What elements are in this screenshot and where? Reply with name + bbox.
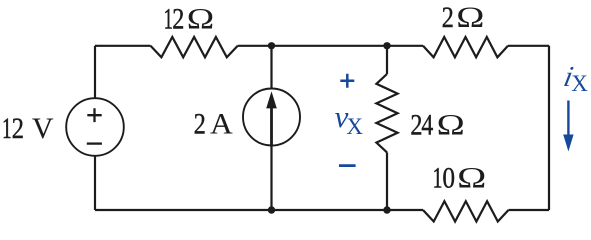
node junction dot: bottom of 24-ohm branch (383, 206, 390, 213)
node junction dot: bottom of current source branch (268, 206, 275, 213)
svg-text:Ω: Ω (437, 109, 465, 141)
svg-text:V: V (32, 112, 54, 145)
resistor 10 ohm (bottom right, zigzag) (423, 201, 509, 221)
value label 12 V (2, 111, 54, 145)
svg-text:Ω: Ω (187, 2, 214, 35)
svg-text:Ω: Ω (456, 2, 484, 34)
voltage source 12V (circle symbol) (66, 98, 124, 156)
wire: right side (548, 46, 550, 210)
svg-text:2: 2 (194, 107, 206, 140)
value label 12 ohm (164, 2, 215, 36)
current source 2A (circle symbol) (243, 89, 300, 146)
label iX current (blue italic i, subscript X) (561, 61, 588, 96)
wire: 24-ohm branch above resistor (386, 46, 388, 74)
plus sign inside 12V source (87, 108, 101, 122)
wire: bottom right corner to 10-ohm (509, 209, 550, 211)
node junction dot: top of 24-ohm branch (383, 42, 390, 49)
label vX voltage (blue italic v, subscript X) (335, 99, 364, 139)
value label 2 A (194, 107, 233, 140)
svg-text:1: 1 (2, 113, 11, 145)
value label 10 ohm (433, 161, 487, 195)
wire: 24-ohm branch below resistor (386, 152, 388, 210)
arrow inside 2A source (pointing up) (266, 91, 277, 144)
plus sign of vX polarity (blue) (340, 74, 354, 88)
svg-text:X: X (346, 114, 363, 139)
svg-text:2: 2 (12, 111, 24, 145)
svg-text:A: A (210, 107, 233, 140)
wire: bottom from left corner through nodes to 10-ohm (95, 209, 423, 211)
minus sign inside 12V source (87, 142, 102, 144)
wire: top-left corner to 12-ohm resistor (95, 45, 151, 47)
resistor 12 ohm (top left, zigzag) (151, 37, 238, 57)
svg-text:1: 1 (433, 161, 443, 194)
resistor 2 ohm (top right, zigzag) (423, 37, 508, 57)
svg-text:4: 4 (421, 108, 433, 141)
value label 2 ohm (442, 1, 485, 34)
wire: current-source branch above circle (270, 46, 272, 89)
svg-text:2: 2 (442, 1, 454, 34)
wire: left side above 12V source (94, 46, 96, 98)
resistor 24 ohm (vertical zigzag) (376, 74, 397, 152)
svg-text:Ω: Ω (457, 161, 486, 194)
wire: current-source branch below circle (270, 146, 272, 211)
current arrow iX (blue, pointing down) (563, 101, 573, 152)
wire: left side below 12V source (94, 156, 96, 210)
node junction dot: top of current source branch (268, 42, 275, 49)
minus sign of vX polarity (blue) (339, 164, 356, 167)
svg-text:0: 0 (442, 162, 455, 195)
value label 24 ohm (410, 108, 464, 142)
svg-text:X: X (571, 71, 588, 96)
wire: 12-ohm to 2-ohm across top nodes (238, 45, 423, 47)
wire: 2-ohm to top-right corner (508, 45, 549, 47)
svg-text:2: 2 (172, 2, 184, 35)
